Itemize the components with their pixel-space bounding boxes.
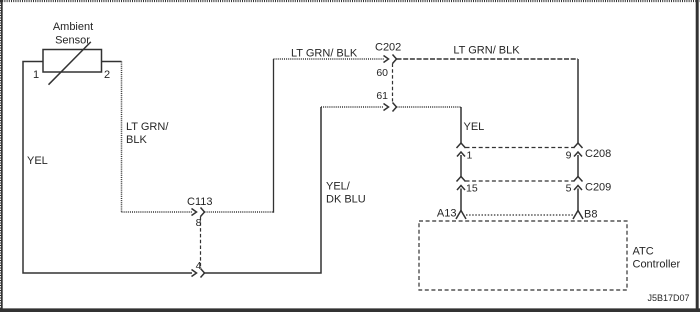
svg-text:LT GRN/ BLK: LT GRN/ BLK xyxy=(291,48,358,60)
wire: down right side to C208 pin 9 xyxy=(577,59,579,143)
connector C209 pin 15 fork xyxy=(457,177,466,182)
ambient sensor (thermistor symbol) xyxy=(43,42,102,85)
connector C208 pin 9 fork xyxy=(574,143,583,148)
wire (dotted): corner to C202 pin 61 xyxy=(321,106,384,108)
wire: C208 pin 9 to C209 pin 5 xyxy=(577,155,579,177)
svg-text:9: 9 xyxy=(566,150,572,162)
svg-text:B8: B8 xyxy=(584,209,597,221)
svg-text:C209: C209 xyxy=(585,182,611,194)
svg-text:YEL: YEL xyxy=(464,121,485,133)
svg-text:J5B17D07: J5B17D07 xyxy=(647,293,689,303)
svg-text:C208: C208 xyxy=(585,148,611,160)
svg-text:LT GRN/ BLK: LT GRN/ BLK xyxy=(453,45,520,57)
svg-text:Sensor: Sensor xyxy=(55,35,90,47)
connector C202 body (dashed) xyxy=(392,64,394,102)
wire: C209 pin 5 to ATC pin B8 xyxy=(577,189,579,211)
connector C113 body (dashed) xyxy=(200,217,202,268)
wire: C209 pin 15 to ATC pin A13 xyxy=(460,189,462,211)
connector C208 pin 9 arrow xyxy=(574,152,582,157)
connector C208 pin 1 fork xyxy=(457,143,466,148)
connector C208 body (dashed) xyxy=(466,147,574,149)
wire YEL/DK BLU: C113 pin 4 right then up to second row xyxy=(205,107,322,273)
wire LT GRN/BLK (dashed): C202 pin 60 to right corner xyxy=(397,58,579,60)
svg-text:60: 60 xyxy=(376,67,388,79)
svg-text:4: 4 xyxy=(196,260,202,272)
connector C202 pin 60 (arrow + fork) xyxy=(384,55,397,64)
wire YEL: sensor pin 1 down left side and along bottom to C113 pin 4 xyxy=(23,62,192,274)
connector C202 pin 61 (arrow + fork) xyxy=(384,103,397,112)
svg-text:5: 5 xyxy=(566,183,572,195)
svg-text:1: 1 xyxy=(33,69,39,81)
wire LT GRN/BLK (dotted): across to C113 pin 8 xyxy=(122,211,193,213)
ATC pin B8 fork xyxy=(573,211,583,220)
svg-text:Controller: Controller xyxy=(633,259,681,271)
svg-text:61: 61 xyxy=(376,90,388,102)
svg-text:BLK: BLK xyxy=(126,134,147,146)
svg-text:2: 2 xyxy=(104,69,110,81)
connector C208 pin 1 arrow xyxy=(457,152,465,157)
svg-text:LT GRN/: LT GRN/ xyxy=(126,121,169,133)
svg-text:8: 8 xyxy=(196,217,202,229)
label ATC Controller xyxy=(633,246,681,271)
connector C209 body (dashed) xyxy=(466,180,574,182)
svg-text:YEL: YEL xyxy=(27,155,48,167)
wire (dotted): C202 pin 61 to YEL drop corner xyxy=(397,106,462,108)
svg-text:ATC: ATC xyxy=(633,246,654,258)
svg-text:C202: C202 xyxy=(375,42,401,54)
connector C113 pin 4 (arrow + fork) xyxy=(192,269,205,278)
svg-text:1: 1 xyxy=(467,150,473,162)
ATC controller box (dashed) xyxy=(419,221,627,290)
connector C209 pin 5 fork xyxy=(574,177,583,182)
wire LT GRN/BLK (dotted): down from sensor pin 2 xyxy=(121,62,123,213)
connector C113 pin 8 (arrow + fork) xyxy=(192,208,205,217)
svg-text:15: 15 xyxy=(466,183,478,195)
svg-text:DK BLU: DK BLU xyxy=(326,194,366,206)
wire stub from sensor pin 2 xyxy=(102,61,122,63)
svg-text:A13: A13 xyxy=(437,208,457,220)
node A13-B8 (dotted line between ATC pins) xyxy=(466,214,573,216)
connector C209 pin 5 arrow xyxy=(574,186,582,191)
svg-text:YEL/: YEL/ xyxy=(326,181,351,193)
wire YEL: down to C208 pin 1 xyxy=(460,107,462,143)
wire LT GRN/BLK (dotted): across top to C202 pin 60 xyxy=(274,58,385,60)
wire LT GRN/BLK: solid riser up to top row xyxy=(273,59,275,213)
wire: C208 pin 1 to C209 pin 15 xyxy=(460,155,462,177)
label YEL/DK BLU xyxy=(326,181,366,206)
wire LT GRN/BLK (dotted): C113 pin 8 to riser corner xyxy=(205,211,274,213)
label LT GRN/BLK (sensor drop wire) xyxy=(126,121,169,146)
svg-text:Ambient: Ambient xyxy=(53,21,93,33)
label: Ambient Sensor xyxy=(53,21,93,47)
connector C209 pin 15 arrow xyxy=(457,186,465,191)
svg-text:C113: C113 xyxy=(187,196,212,208)
ATC pin A13 fork xyxy=(456,211,466,220)
